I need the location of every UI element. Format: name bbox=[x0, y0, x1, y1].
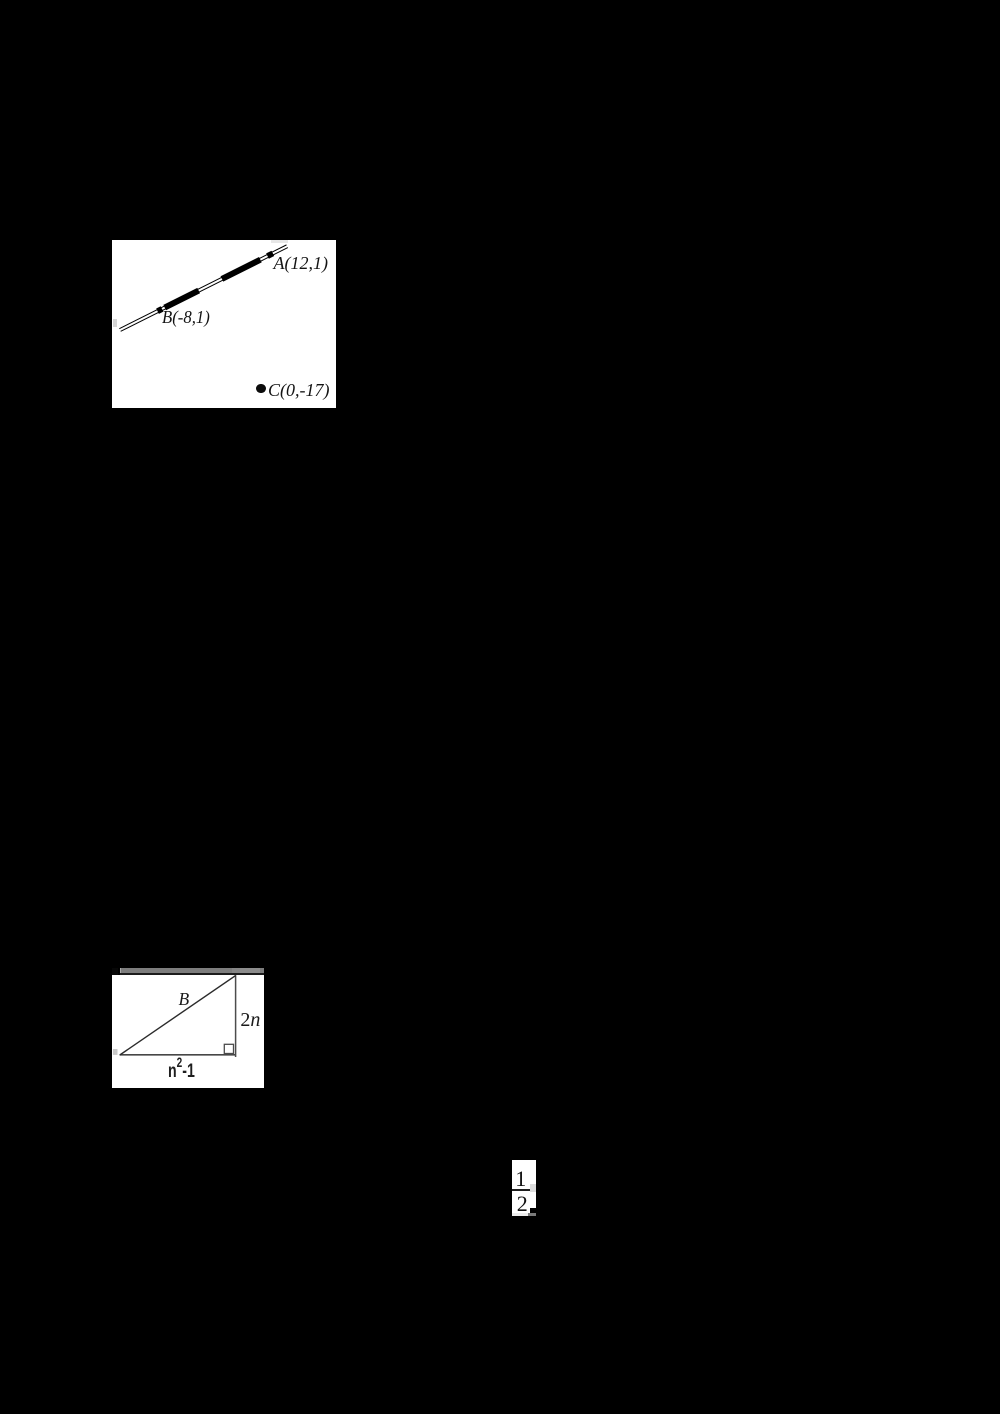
numerator 1 bbox=[515, 1169, 526, 1188]
point B square marker bbox=[156, 306, 164, 314]
label 2n (right side) bbox=[240, 1012, 260, 1029]
triangle drawing bbox=[112, 975, 264, 1088]
bottom grey streaks bbox=[512, 1213, 528, 1216]
grey mark at left edge near line start bbox=[113, 319, 117, 328]
rotated line container (line through A and B) bbox=[119, 243, 289, 332]
thick dash 2 (A side) bbox=[221, 257, 262, 281]
thick dash 1 (B side) bbox=[163, 288, 200, 310]
dark line under grey bar bbox=[120, 973, 265, 975]
grey handle at bottom-left vertex bbox=[113, 1049, 118, 1055]
label A(12,1) bbox=[274, 255, 328, 271]
fraction bar bbox=[512, 1189, 530, 1191]
hypotenuse (B) bbox=[120, 975, 236, 1055]
denominator 2 bbox=[517, 1194, 528, 1213]
white box of figure 2 bbox=[112, 975, 264, 1088]
black handle left of grey bar bbox=[112, 968, 118, 977]
label B (hypotenuse) bbox=[179, 992, 190, 1007]
triangle bottom side (n^2-1) bbox=[120, 1054, 236, 1056]
bullet point C bbox=[256, 384, 265, 393]
triangle right side (2n) bbox=[235, 975, 237, 1057]
label n^2-1 (bottom side) bbox=[168, 1062, 195, 1082]
thin double-line (outlined band) bbox=[119, 244, 288, 331]
black notch bottom-right bbox=[530, 1208, 536, 1213]
label C(0,-17) bbox=[268, 382, 330, 398]
right angle marker bbox=[224, 1044, 233, 1053]
grey smudge at top edge near A tip bbox=[271, 240, 288, 243]
grey selection bar bbox=[120, 968, 265, 973]
label B(-8,1) bbox=[162, 309, 210, 325]
grey patch right of bar bbox=[530, 1184, 536, 1191]
point A square marker bbox=[267, 250, 275, 258]
